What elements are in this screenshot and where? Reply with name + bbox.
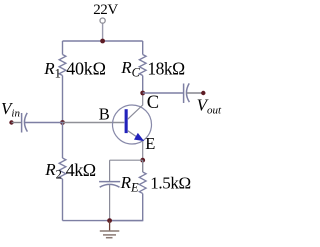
transistor Q1 emitter arrow (blue) — [135, 134, 143, 141]
capacitor CE bypass (straight + curved plate) — [99, 182, 120, 188]
input terminal Vin — [9, 120, 13, 124]
capacitor C2 output coupling (straight + curved plate) — [184, 83, 190, 103]
svg-text:4kΩ: 4kΩ — [66, 160, 96, 180]
junction: node E — [140, 158, 145, 163]
ground symbol — [100, 221, 120, 238]
wire: right branch from rail to RC — [142, 41, 144, 55]
transistor Q1 body circle — [113, 105, 152, 144]
wire: CE bottom lead to ground node — [109, 185, 111, 221]
wire: RE to bottom rail — [110, 194, 143, 221]
svg-text:40kΩ: 40kΩ — [66, 58, 106, 78]
wire: left branch from base junction to R2 — [62, 123, 64, 159]
svg-text:R1: R1 — [43, 59, 61, 81]
wire: left branch from rail to R1 — [62, 41, 64, 55]
wire: node E to RE — [142, 160, 144, 172]
svg-text:C: C — [147, 93, 159, 113]
junction: base node — [60, 120, 65, 125]
svg-text:RE: RE — [120, 173, 139, 195]
wire: cap C2 to Vout terminal — [187, 92, 203, 94]
junction: supply node — [100, 39, 105, 44]
resistor R2 (zigzag) — [59, 158, 66, 179]
capacitor C1 input coupling (straight + curved plate) — [22, 113, 28, 133]
transistor Q1 base bar (blue) — [125, 109, 128, 133]
wire: node C to output cap — [143, 92, 184, 94]
wire: bottom ground rail — [63, 220, 143, 222]
wire: cap C1 to base junction — [25, 122, 63, 124]
svg-text:E: E — [145, 134, 155, 153]
transistor Q1 emitter lead — [128, 131, 143, 161]
resistor RE (zigzag) — [139, 172, 146, 193]
wire: left branch from R1 to base junction — [62, 76, 64, 123]
wire: bypass branch horizontal (node E to CE) — [110, 159, 143, 161]
resistor R1 (zigzag) — [59, 55, 66, 76]
wire: base lead to transistor — [63, 122, 125, 124]
junction: ground node — [107, 218, 112, 223]
wire: CE top lead — [109, 160, 111, 181]
output terminal Vout — [201, 91, 205, 95]
wire: top supply rail — [63, 40, 143, 42]
junction: node C — [140, 91, 145, 96]
wire: RC to node C — [142, 76, 144, 94]
svg-text:Vout: Vout — [197, 96, 222, 117]
transistor Q1 collector lead — [128, 93, 143, 119]
svg-text:22V: 22V — [93, 2, 118, 18]
svg-text:Vin: Vin — [1, 99, 20, 120]
resistor RC (zigzag) — [139, 55, 146, 76]
wire: left branch from R2 to bottom rail — [62, 179, 64, 221]
svg-text:RC: RC — [120, 58, 140, 80]
svg-text:1.5kΩ: 1.5kΩ — [150, 174, 191, 193]
wire: input lead to coupling cap — [12, 122, 22, 124]
svg-text:18kΩ: 18kΩ — [147, 58, 185, 78]
power terminal 22V (open circle + stem) — [100, 18, 105, 41]
svg-text:B: B — [99, 105, 110, 124]
